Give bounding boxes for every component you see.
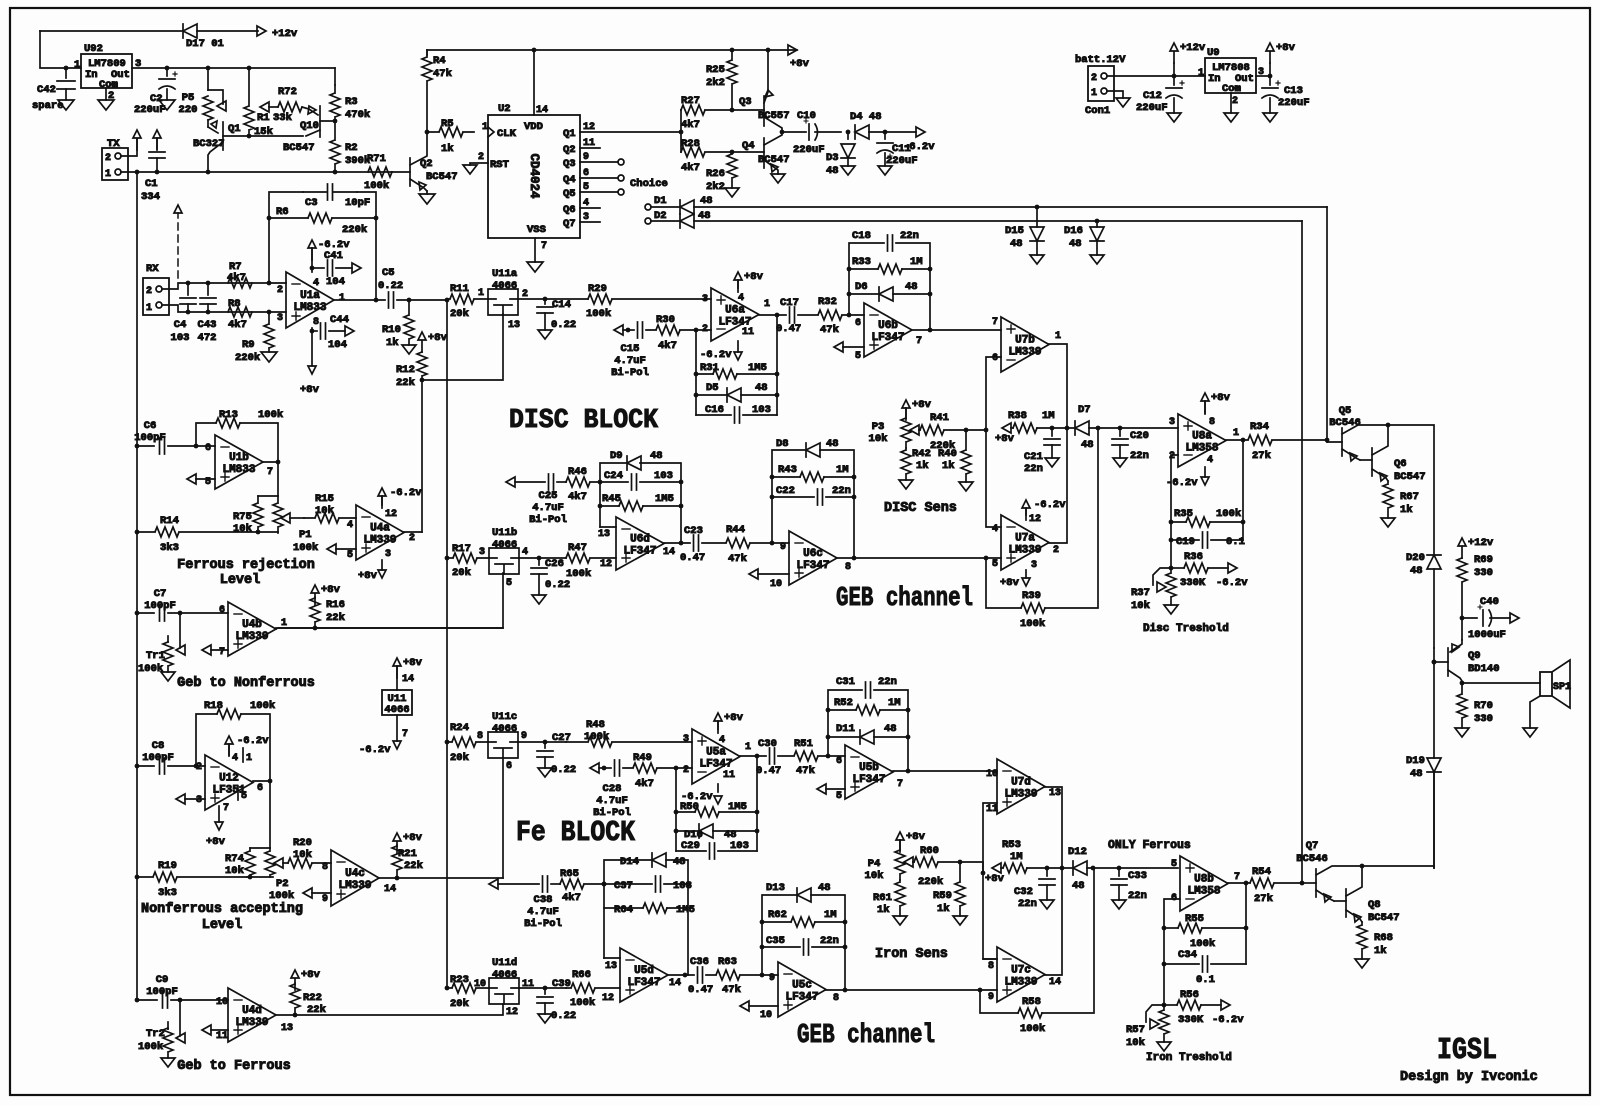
svg-text:C35: C35: [766, 935, 785, 947]
svg-text:U11c: U11c: [492, 711, 517, 723]
svg-text:RX: RX: [146, 263, 159, 275]
svg-text:ONLY Ferrous: ONLY Ferrous: [1108, 839, 1191, 852]
wire U11d control from U4d: [295, 1004, 503, 1015]
svg-text:U8b: U8b: [1194, 874, 1214, 886]
svg-text:47k: 47k: [820, 324, 839, 336]
svg-text:Q7: Q7: [563, 218, 576, 230]
svg-text:4: 4: [992, 524, 998, 535]
wire U8b output: [1228, 882, 1246, 884]
svg-text:330K: 330K: [1178, 1014, 1204, 1026]
svg-text:10k: 10k: [1126, 1037, 1145, 1049]
svg-text:LF347: LF347: [627, 977, 660, 989]
wire U5a output: [740, 755, 766, 757]
svg-text:10k: 10k: [865, 870, 884, 882]
svg-text:5: 5: [241, 791, 247, 802]
svg-text:Q8: Q8: [1368, 899, 1381, 911]
svg-text:-6.2v: -6.2v: [903, 141, 935, 153]
svg-text:R16: R16: [326, 599, 345, 611]
op-amp U4a LM339: [356, 505, 404, 560]
svg-text:D2: D2: [654, 210, 667, 222]
power -6.2v U12 pin4: [228, 744, 230, 755]
capacitor C30 0.47: [770, 748, 775, 764]
svg-text:4k7: 4k7: [562, 892, 581, 904]
svg-text:R19: R19: [158, 860, 177, 872]
wire U6d output: [664, 542, 690, 544]
svg-text:1000uF: 1000uF: [1468, 629, 1506, 641]
resistor R35 100k: [1171, 521, 1186, 523]
svg-text:R6: R6: [276, 206, 289, 218]
svg-text:+8v: +8v: [906, 831, 926, 843]
svg-text:R1: R1: [257, 112, 270, 124]
svg-text:330K: 330K: [1180, 577, 1206, 589]
svg-text:5: 5: [855, 351, 861, 362]
capacitor C5 0.22: [389, 292, 394, 308]
svg-text:R65: R65: [560, 868, 579, 880]
svg-text:LF347: LF347: [699, 759, 732, 771]
wire speaker to ground: [1530, 696, 1540, 728]
op-amp U12 LF351: [205, 755, 253, 810]
svg-text:R17: R17: [452, 543, 471, 555]
capacitor C4 103: [186, 281, 191, 286]
pin1 tick U12: [242, 748, 244, 762]
power -6.2v down U8a: [1204, 467, 1206, 477]
svg-text:13: 13: [281, 1023, 293, 1034]
capacitor C24 103: [600, 481, 628, 483]
svg-text:Disc Treshold: Disc Treshold: [1143, 623, 1229, 635]
diode D15 48: [1035, 205, 1040, 210]
svg-text:220k: 220k: [342, 224, 367, 236]
wire U4d output: [276, 1014, 295, 1016]
svg-text:7: 7: [992, 317, 998, 328]
ground under Q4: [771, 174, 785, 183]
svg-text:Q5: Q5: [1339, 405, 1352, 417]
svg-text:U11a: U11a: [492, 268, 518, 280]
capacitor C37 103: [604, 883, 652, 885]
svg-text:100k: 100k: [269, 890, 294, 902]
svg-text:12: 12: [602, 993, 614, 1004]
wire U11b out: [519, 557, 566, 559]
svg-text:+12v: +12v: [1468, 537, 1494, 549]
svg-text:7: 7: [219, 647, 225, 658]
svg-text:U7b: U7b: [1015, 335, 1035, 347]
svg-text:1k: 1k: [937, 903, 950, 915]
svg-text:4k7: 4k7: [681, 162, 700, 174]
resistor R31 1M5: [696, 373, 713, 375]
svg-text:IGSL: IGSL: [1437, 1033, 1497, 1068]
feedback box C3/R6: [269, 192, 303, 283]
svg-text:1: 1: [1233, 428, 1239, 439]
svg-text:LF347: LF347: [785, 992, 818, 1004]
svg-text:-6.2v: -6.2v: [237, 735, 269, 747]
power +8v U6a: [737, 280, 739, 288]
svg-text:7: 7: [916, 336, 922, 347]
svg-text:+12v: +12v: [272, 28, 298, 40]
node D2 input: [645, 218, 651, 224]
svg-text:13: 13: [1049, 788, 1061, 799]
svg-text:U2: U2: [498, 103, 511, 115]
svg-text:48: 48: [1410, 768, 1423, 780]
capacitor C40 1000uF: [1462, 617, 1477, 619]
svg-text:13: 13: [605, 961, 617, 972]
svg-text:-6.2v: -6.2v: [1212, 1014, 1244, 1026]
wire R27 to Q3 base: [732, 109, 764, 111]
svg-text:1M: 1M: [824, 909, 837, 921]
svg-text:3: 3: [1169, 417, 1175, 428]
svg-text:27k: 27k: [1254, 893, 1273, 905]
wire D1 line to right: [694, 206, 1327, 208]
ground under C12: [1167, 113, 1181, 122]
resistor R40 1k: [964, 428, 969, 433]
svg-text:R42: R42: [912, 448, 931, 460]
svg-text:5: 5: [347, 550, 353, 561]
svg-text:R61: R61: [873, 892, 892, 904]
svg-text:100pF: 100pF: [144, 600, 176, 612]
ground under C20: [1113, 458, 1127, 467]
capacitor C19 0.1: [1171, 539, 1199, 541]
svg-text:U4c: U4c: [345, 868, 365, 880]
arrow U4c pin9: [303, 888, 312, 898]
svg-text:U4b: U4b: [242, 619, 262, 631]
svg-text:R4: R4: [433, 55, 446, 67]
wire U8a output: [1226, 439, 1243, 441]
svg-text:2k2: 2k2: [706, 181, 725, 193]
svg-text:R8: R8: [228, 298, 241, 310]
arrow U6b pin5: [834, 342, 843, 352]
op-amp U6d LF347: [616, 517, 664, 570]
resistor R67 1k: [1383, 481, 1393, 518]
resistor R52 1M: [828, 709, 856, 711]
svg-text:8: 8: [845, 562, 851, 573]
svg-text:1M: 1M: [1042, 410, 1055, 422]
op-amp U7a LM339: [1001, 515, 1049, 570]
diode D10 48: [676, 830, 699, 832]
ground under R59: [953, 916, 967, 925]
wire U11b control from U4b: [278, 573, 503, 628]
svg-text:R33: R33: [852, 256, 871, 268]
svg-text:R21: R21: [398, 848, 417, 860]
transistor Q6 BC547: [1371, 448, 1373, 476]
regulator U92 LM7809: [81, 54, 132, 88]
svg-text:10: 10: [474, 979, 486, 990]
svg-text:0.22: 0.22: [545, 579, 570, 591]
svg-text:12: 12: [385, 509, 397, 520]
resistor R47 100k: [566, 553, 616, 563]
wire to U5b pin6: [828, 755, 845, 757]
resistor R22 22k: [291, 970, 299, 990]
arrow +12v: [257, 26, 266, 36]
resistor R21 22k: [393, 833, 401, 853]
wire signal bus vertical: [446, 300, 448, 988]
ground under R26: [725, 188, 739, 197]
svg-text:1: 1: [1055, 331, 1061, 342]
svg-text:C31: C31: [836, 676, 855, 688]
resistor R74 10k: [250, 847, 270, 849]
ground under Tr1: [161, 672, 175, 681]
svg-text:1: 1: [146, 303, 152, 314]
resistor R71 100k: [368, 167, 392, 177]
svg-text:9: 9: [322, 894, 328, 905]
capacitor C36 0.47: [698, 967, 703, 983]
resistor R16 22k: [311, 585, 319, 605]
arrow +8v rail: [788, 45, 797, 55]
capacitor C6 100pF: [135, 444, 140, 449]
svg-text:11: 11: [742, 327, 754, 338]
svg-text:R46: R46: [568, 466, 587, 478]
ground under U92: [98, 100, 114, 110]
resistor R70 330: [1457, 683, 1467, 728]
svg-text:48: 48: [826, 438, 839, 450]
svg-text:C14: C14: [552, 299, 571, 311]
resistor R43 1M: [772, 476, 800, 478]
resistor R32 47k: [798, 310, 849, 320]
op-amp U8b LM358: [1180, 856, 1228, 911]
svg-text:3: 3: [702, 294, 708, 305]
svg-text:R12: R12: [396, 364, 415, 376]
svg-text:6: 6: [836, 756, 842, 767]
op-amp U6b LF347: [864, 303, 912, 357]
svg-text:48: 48: [700, 195, 713, 207]
svg-text:C15: C15: [621, 343, 640, 355]
svg-text:+8v: +8v: [358, 570, 378, 582]
svg-text:C6: C6: [144, 420, 157, 432]
capacitor C2: [166, 68, 168, 76]
wire Q7 collector to column: [1362, 866, 1434, 868]
svg-text:LM339: LM339: [338, 880, 371, 892]
ground under C26: [532, 595, 546, 604]
svg-text:U6d: U6d: [630, 534, 650, 546]
ground under C42: [58, 100, 74, 110]
svg-text:LF347: LF347: [871, 332, 904, 344]
svg-text:P4: P4: [868, 858, 881, 870]
svg-text:48: 48: [1081, 439, 1094, 451]
svg-text:8: 8: [833, 993, 839, 1004]
svg-text:LF347: LF347: [623, 546, 656, 558]
svg-text:2: 2: [146, 286, 152, 297]
svg-text:U11d: U11d: [492, 957, 517, 969]
svg-text:batt.12V: batt.12V: [1075, 54, 1126, 66]
resistor R53 1M: [992, 863, 1001, 873]
svg-text:Geb to Nonferrous: Geb to Nonferrous: [177, 676, 315, 691]
svg-text:3: 3: [683, 734, 689, 745]
capacitor C27 0.22: [544, 742, 546, 748]
svg-text:27k: 27k: [1252, 450, 1271, 462]
svg-text:100k: 100k: [584, 731, 609, 743]
transistor Q2 BC547: [409, 158, 411, 186]
svg-text:14: 14: [1049, 977, 1061, 988]
svg-text:103: 103: [752, 404, 771, 416]
op-amp U7c LM339: [997, 947, 1045, 1002]
svg-text:220uF: 220uF: [1278, 97, 1310, 109]
svg-text:+8v: +8v: [206, 836, 226, 848]
svg-text:R49: R49: [633, 752, 652, 764]
resistor R45 1M5: [600, 505, 619, 507]
svg-text:4066: 4066: [492, 723, 517, 735]
svg-text:D8: D8: [776, 438, 789, 450]
resistor R1 15k: [244, 70, 254, 133]
svg-text:R3: R3: [345, 96, 358, 108]
svg-text:47k: 47k: [796, 765, 815, 777]
svg-text:Bi-Pol: Bi-Pol: [611, 367, 649, 379]
capacitor C17 0.47: [790, 307, 795, 323]
feedback box R31/D5/C16: [695, 330, 697, 415]
arrow -6.2v: [916, 127, 925, 137]
svg-text:R15: R15: [315, 493, 334, 505]
diode D19 48: [1433, 648, 1435, 758]
svg-text:BC547: BC547: [1368, 912, 1400, 924]
svg-text:103: 103: [673, 880, 692, 892]
wire to D17: [40, 30, 183, 32]
svg-text:+8v: +8v: [995, 433, 1015, 445]
ground under R40: [959, 482, 973, 491]
switch U11c 4066: [488, 732, 518, 758]
svg-text:48: 48: [1410, 565, 1423, 577]
svg-text:4k7: 4k7: [681, 119, 700, 131]
svg-text:8: 8: [988, 961, 994, 972]
svg-text:R71: R71: [367, 153, 386, 165]
op-amp U5b LF347: [845, 745, 893, 799]
svg-text:U92: U92: [84, 43, 103, 55]
svg-text:BC547: BC547: [758, 154, 790, 166]
svg-text:R30: R30: [656, 314, 675, 326]
power +8v U8a: [1204, 401, 1206, 414]
feedback box D8/R43/C22: [772, 450, 806, 543]
power +8v down U4a pin3: [381, 560, 383, 570]
svg-text:100pF: 100pF: [146, 986, 178, 998]
svg-text:VDD: VDD: [524, 121, 543, 133]
wire U4a output up: [404, 531, 422, 533]
svg-text:LM358: LM358: [1187, 886, 1220, 898]
svg-text:9: 9: [988, 992, 994, 1003]
svg-text:U6a: U6a: [725, 305, 745, 317]
wire to U6b pin6: [849, 314, 864, 316]
svg-text:1: 1: [745, 742, 751, 753]
wire U92 Out rail: [132, 67, 335, 69]
svg-text:DISC Sens: DISC Sens: [884, 501, 957, 516]
svg-text:4k7: 4k7: [658, 340, 677, 352]
svg-text:-6.2v: -6.2v: [1034, 499, 1066, 511]
svg-text:Level: Level: [202, 918, 243, 933]
IC U11 4066 power: [382, 690, 412, 715]
ground under D16: [1090, 255, 1104, 264]
svg-text:1: 1: [74, 59, 80, 71]
resistor R64 1M5: [604, 907, 643, 909]
svg-text:R5: R5: [441, 118, 454, 130]
svg-text:R29: R29: [588, 283, 607, 295]
svg-text:D13: D13: [766, 882, 785, 894]
svg-text:R59: R59: [933, 890, 952, 902]
switch U11a 4066: [488, 289, 518, 315]
power -6.2v down U6a: [737, 341, 739, 352]
svg-text:47k: 47k: [728, 553, 747, 565]
svg-text:100k: 100k: [1216, 508, 1241, 520]
svg-text:1k: 1k: [1374, 945, 1387, 957]
wire to U1a pin2: [269, 282, 286, 284]
svg-text:7: 7: [541, 241, 547, 252]
resistor R44 47k: [702, 538, 772, 548]
svg-text:C22: C22: [776, 485, 795, 497]
resistor R42 1k: [901, 448, 911, 480]
diode D3 48: [847, 132, 849, 139]
wire DISC sens to bus: [966, 429, 986, 431]
capacitor C20 22n: [1119, 428, 1121, 436]
svg-text:12: 12: [600, 559, 612, 570]
svg-text:D19: D19: [1406, 755, 1425, 767]
svg-text:6: 6: [257, 783, 263, 794]
svg-text:R14: R14: [160, 515, 179, 527]
svg-text:10k: 10k: [225, 865, 244, 877]
svg-text:4: 4: [347, 520, 353, 531]
feedback box R50/D10/C29: [675, 768, 677, 851]
feedback box C31/R52/D11: [828, 690, 862, 756]
ground under D15: [1030, 255, 1044, 264]
svg-text:100k: 100k: [138, 1041, 163, 1053]
svg-text:47k: 47k: [433, 68, 452, 80]
svg-text:R54: R54: [1252, 866, 1271, 878]
trimmer Tr2 100k: [179, 1000, 181, 1036]
resistor R30 4k7: [646, 325, 696, 335]
svg-text:+8v: +8v: [428, 332, 448, 344]
svg-text:D20: D20: [1406, 552, 1425, 564]
capacitor C35 22n: [762, 946, 800, 948]
svg-text:U4d: U4d: [242, 1005, 262, 1017]
transistor Q8 BC547: [1345, 889, 1347, 917]
wire U6b output: [912, 329, 1001, 331]
ground under C27: [538, 768, 552, 777]
svg-text:10k: 10k: [293, 849, 312, 861]
svg-text:220: 220: [179, 104, 198, 116]
svg-text:8: 8: [477, 731, 483, 742]
svg-text:100k: 100k: [1020, 1023, 1045, 1035]
svg-text:DISC BLOCK: DISC BLOCK: [509, 406, 659, 436]
ground under C2: [159, 100, 175, 110]
svg-text:48: 48: [1010, 238, 1023, 250]
op-amp U1a LM833: [286, 272, 334, 328]
power arrow TX: [133, 130, 141, 150]
feedback box D9/C24/R45: [600, 463, 628, 527]
svg-text:10: 10: [770, 579, 782, 590]
svg-text:4: 4: [738, 293, 744, 304]
op-amp U4d LM339: [228, 988, 276, 1042]
resistor R20 10k: [288, 858, 331, 868]
svg-text:4.7uF: 4.7uF: [527, 906, 559, 918]
svg-text:20k: 20k: [452, 567, 471, 579]
svg-text:C3: C3: [305, 197, 318, 209]
svg-text:R62: R62: [768, 909, 787, 921]
svg-text:6: 6: [506, 761, 512, 772]
svg-text:Q2: Q2: [563, 144, 576, 156]
svg-text:+8v: +8v: [300, 384, 320, 396]
wire U7c pin8: [983, 958, 997, 960]
svg-text:100k: 100k: [570, 997, 595, 1009]
svg-text:R9: R9: [242, 339, 255, 351]
ground under R10: [402, 345, 416, 354]
svg-text:0.47: 0.47: [688, 984, 713, 996]
wire VSS to ground: [534, 238, 536, 262]
svg-text:48: 48: [1072, 880, 1085, 892]
ground at RST: [463, 165, 477, 174]
svg-text:4: 4: [313, 278, 319, 289]
svg-text:-6.2v: -6.2v: [359, 744, 391, 756]
trimmer Tr1 100k: [179, 613, 181, 648]
svg-text:R48: R48: [586, 719, 605, 731]
capacitor C18 22n: [888, 235, 893, 251]
svg-text:1: 1: [764, 299, 770, 310]
svg-text:C18: C18: [852, 230, 871, 242]
power -6.2v down U5a: [717, 784, 719, 792]
power +8v down U12 pin7: [218, 806, 220, 822]
dashed coupling line: [177, 213, 179, 278]
svg-text:0.1: 0.1: [1196, 974, 1215, 986]
